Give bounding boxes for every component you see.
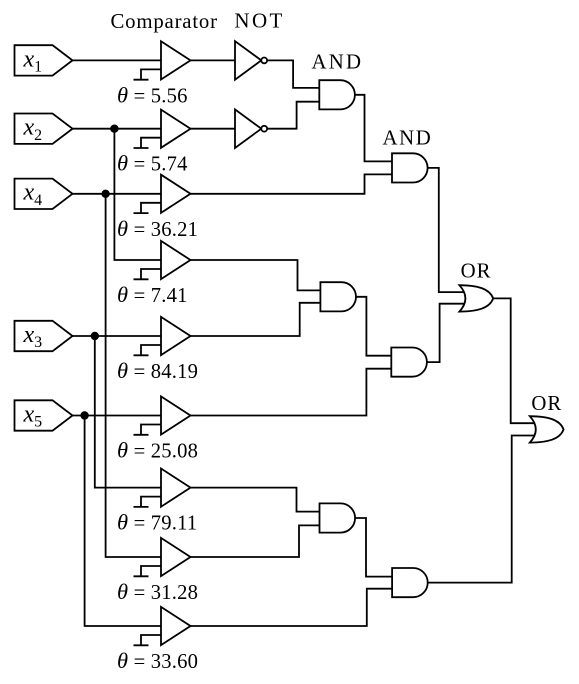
- svg-text:θ = 31.28: θ = 31.28: [117, 579, 198, 604]
- wire AND 2 to OR 1 input A: [428, 168, 467, 292]
- wire AND 1 to AND 2 input A: [354, 95, 393, 162]
- comparator U8: [134, 538, 191, 576]
- wire x5 to comparator 6: [73, 415, 162, 417]
- comparator U5: [134, 317, 191, 355]
- comparator U3: [134, 175, 191, 213]
- wire comparator 3 to AND 2 input B: [191, 174, 394, 193]
- junction node x5 branch: [81, 412, 88, 419]
- AND gate A6: [392, 568, 428, 597]
- input tag x3: [15, 321, 73, 351]
- AND gate A3: [320, 282, 356, 311]
- AND gate A5: [320, 503, 356, 532]
- svg-text:θ = 79.11: θ = 79.11: [117, 510, 197, 535]
- comparator U9: [134, 607, 191, 645]
- AND gate A2: [392, 153, 428, 182]
- wire x2 branch to comparator 4: [114, 129, 161, 260]
- wire x1 to comparator 1: [73, 59, 162, 61]
- comparator U7: [134, 469, 191, 507]
- wire AND 5 to AND 6 input A: [355, 518, 394, 577]
- wire comparator 9 to AND 6 input B: [191, 589, 394, 626]
- wire comparator 4 to AND 3 input A: [191, 260, 323, 290]
- comparator U2: [134, 110, 191, 148]
- svg-text:OR: OR: [531, 392, 562, 415]
- comparator U6: [134, 396, 191, 434]
- junction node x3 branch: [92, 333, 99, 340]
- OR gate O2: [530, 416, 564, 442]
- svg-text:θ = 25.08: θ = 25.08: [117, 438, 198, 463]
- wire comparator 6 to AND 4 input B: [191, 369, 393, 416]
- svg-text:OR: OR: [461, 259, 492, 282]
- OR gate O1: [459, 285, 493, 311]
- junction node x4 branch: [102, 191, 109, 198]
- NOT gate N2: [235, 109, 267, 148]
- wire OR 1 to OR 2 input A: [493, 298, 536, 423]
- NOT gate N1: [235, 41, 267, 80]
- wire AND 4 to OR 1 input B: [427, 304, 466, 362]
- wire x5 branch to comparator 9: [85, 416, 161, 627]
- wire x4 branch to comparator 8: [106, 194, 161, 557]
- comparator U4: [134, 241, 191, 279]
- wire x2 to comparator 2: [73, 128, 162, 130]
- wire comparator 8 to AND 5 input B: [191, 525, 322, 557]
- svg-text:θ = 33.60: θ = 33.60: [117, 648, 198, 673]
- input tag x4: [15, 179, 73, 209]
- svg-text:Comparator: Comparator: [111, 10, 218, 33]
- AND gate A1: [319, 80, 355, 109]
- wire AND 6 to OR 2 input B: [428, 436, 536, 583]
- svg-text:θ = 36.21: θ = 36.21: [117, 216, 198, 241]
- wire comparator 5 to AND 3 input B: [191, 303, 323, 336]
- svg-text:θ = 5.56: θ = 5.56: [117, 82, 188, 107]
- svg-text:NOT: NOT: [234, 9, 284, 33]
- wire x3 branch to comparator 7: [95, 336, 161, 488]
- wire comparator 7 to AND 5 input A: [191, 488, 322, 512]
- AND gate A4: [391, 348, 427, 377]
- svg-text:AND: AND: [383, 127, 433, 150]
- wire comparator 2 to NOT 2: [191, 128, 236, 130]
- wire x4 to comparator 3: [73, 193, 162, 195]
- svg-text:θ = 7.41: θ = 7.41: [117, 282, 188, 307]
- svg-text:θ = 5.74: θ = 5.74: [117, 151, 188, 176]
- input tag x1: [15, 45, 73, 75]
- wire AND 3 to AND 4 input A: [356, 297, 393, 356]
- svg-text:AND: AND: [312, 50, 364, 73]
- comparator U1: [134, 41, 191, 79]
- wire NOT 2 to AND 1 input B: [267, 102, 320, 129]
- wire x3 to comparator 5: [73, 335, 162, 337]
- input tag x5: [15, 400, 73, 430]
- wire NOT 1 to AND 1 input A: [267, 60, 320, 88]
- svg-text:θ = 84.19: θ = 84.19: [117, 358, 198, 383]
- wire comparator 1 to NOT 1: [191, 59, 236, 61]
- junction node x2 branch: [111, 125, 118, 132]
- input tag x2: [15, 114, 73, 144]
